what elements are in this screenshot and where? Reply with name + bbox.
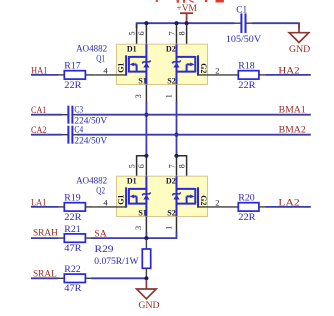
ground GND (bottom) bbox=[137, 280, 160, 312]
svg-text:D2: D2 bbox=[166, 177, 176, 186]
wire R21 to SA node bbox=[91, 237, 146, 239]
svg-text:5: 5 bbox=[127, 164, 136, 168]
svg-text:SA: SA bbox=[94, 229, 107, 239]
svg-text:HA1: HA1 bbox=[31, 65, 48, 75]
svg-text:S2: S2 bbox=[167, 209, 175, 218]
svg-text:S1: S1 bbox=[138, 77, 146, 86]
svg-text:7: 7 bbox=[167, 31, 176, 35]
svg-text:2: 2 bbox=[215, 65, 219, 75]
pin numbers 5 6 7 8 (Q2) bbox=[127, 164, 186, 168]
svg-text:CA2: CA2 bbox=[31, 125, 47, 135]
svg-text:R18: R18 bbox=[238, 61, 255, 71]
svg-text:G2: G2 bbox=[199, 195, 208, 205]
svg-text:6: 6 bbox=[137, 31, 146, 35]
wire pin7 column Q1 top bbox=[176, 23, 178, 44]
svg-text:D1: D1 bbox=[127, 177, 137, 186]
wire S1(Q1) down to BMA1 and jog row bbox=[145, 85, 147, 104]
resistor R19 22R bbox=[58, 193, 92, 222]
svg-text:D2: D2 bbox=[166, 45, 176, 54]
svg-text:47R: 47R bbox=[64, 243, 82, 253]
resistor R29 0.075R/1W (vertical) bbox=[142, 238, 150, 278]
part body Q1 AO4882 bbox=[117, 44, 208, 84]
wire HA1 to R17 bbox=[31, 74, 58, 76]
svg-text:1: 1 bbox=[164, 226, 173, 230]
svg-text:R22: R22 bbox=[64, 264, 81, 274]
svg-text:LA2: LA2 bbox=[278, 197, 300, 207]
junction dot BMA1 column bbox=[144, 113, 148, 117]
capacitor C4 bbox=[68, 126, 72, 144]
svg-text:22R: 22R bbox=[238, 212, 256, 222]
wire Q2 G2 to R20 bbox=[198, 206, 238, 208]
svg-text:22R: 22R bbox=[64, 212, 82, 222]
junction dot SA node bbox=[144, 236, 148, 240]
ground GND (top right) bbox=[289, 23, 310, 55]
wire R19 to Q2 gate G1 bbox=[91, 206, 126, 208]
svg-text:5: 5 bbox=[127, 31, 136, 35]
pin numbers 5 6 7 8 (Q1) bbox=[127, 31, 186, 35]
wire Q1 G2 to R18 bbox=[198, 74, 238, 76]
svg-text:AO4882: AO4882 bbox=[76, 175, 107, 185]
wire jog to Q2 pin8 bbox=[177, 156, 187, 176]
wire R17 to Q1 gate G1 bbox=[91, 74, 126, 76]
svg-text:22R: 22R bbox=[64, 80, 82, 90]
svg-text:R20: R20 bbox=[238, 193, 255, 203]
resistor R21 47R bbox=[58, 224, 92, 253]
resistor R17 22R bbox=[58, 61, 92, 90]
wire jog to Q2 pin5 bbox=[137, 156, 147, 176]
wire LA1 to R19 bbox=[31, 206, 58, 208]
svg-text:AO4882: AO4882 bbox=[76, 43, 107, 53]
wire +VM rail bbox=[137, 23, 235, 28]
svg-text:SRAH: SRAH bbox=[33, 227, 58, 237]
svg-text:0.075R/1W: 0.075R/1W bbox=[94, 256, 139, 266]
svg-text:G2: G2 bbox=[199, 63, 208, 73]
junction dot BMA2 column bbox=[174, 133, 178, 137]
wire S2(Q1) down to BMA2 and jog row bbox=[176, 85, 178, 104]
capacitor C1 bbox=[235, 13, 253, 33]
svg-text:S2: S2 bbox=[167, 77, 175, 86]
wire Q2 pin7 drop bbox=[176, 156, 178, 176]
svg-text:R29: R29 bbox=[95, 244, 114, 254]
svg-text:4: 4 bbox=[103, 197, 108, 207]
wire CA1 to C3 bbox=[31, 114, 68, 116]
svg-text:BMA2: BMA2 bbox=[279, 125, 307, 135]
svg-text:6: 6 bbox=[137, 164, 146, 168]
svg-text:R19: R19 bbox=[64, 193, 81, 203]
svg-text:Q1: Q1 bbox=[96, 54, 105, 64]
svg-text:R17: R17 bbox=[64, 61, 81, 71]
svg-text:GND: GND bbox=[138, 300, 159, 311]
wire pin5 drop Q1 bbox=[136, 24, 138, 44]
transistor Q2-B (right N-FET) bbox=[172, 176, 198, 216]
wire R18 to HA2 bbox=[259, 74, 311, 76]
svg-text:22R: 22R bbox=[238, 80, 256, 90]
junction dots jog row bbox=[144, 154, 178, 158]
svg-text:4: 4 bbox=[103, 65, 108, 75]
svg-text:C3: C3 bbox=[74, 105, 83, 115]
svg-text:1: 1 bbox=[164, 94, 173, 98]
svg-text:8: 8 bbox=[177, 164, 186, 168]
part body Q2 AO4882 bbox=[117, 176, 208, 216]
transistor Q1-A (left N-FET) bbox=[126, 44, 151, 84]
clipped title text fragments (top edge) bbox=[156, 0, 224, 3]
svg-text:CA1: CA1 bbox=[31, 105, 47, 115]
wire pin8 column Q1 top bbox=[186, 23, 188, 44]
transistor Q2-A (left N-FET) bbox=[126, 176, 151, 216]
transistor Q1-B (right N-FET) bbox=[172, 44, 198, 84]
junction dot GND node bbox=[144, 276, 148, 280]
wire R22 to GND node bbox=[91, 277, 146, 279]
svg-text:3: 3 bbox=[134, 94, 143, 98]
capacitor C3 bbox=[68, 106, 72, 124]
junction dots on +VM rail bbox=[144, 21, 188, 25]
wire R20 to LA2 bbox=[259, 206, 311, 208]
svg-text:HA2: HA2 bbox=[278, 65, 300, 75]
svg-text:D1: D1 bbox=[127, 45, 137, 54]
wire C3 to BMA1 bbox=[73, 114, 310, 116]
svg-text:R21: R21 bbox=[64, 224, 81, 234]
svg-text:GND: GND bbox=[289, 44, 310, 55]
svg-text:105/50V: 105/50V bbox=[226, 34, 262, 44]
svg-text:224/50V: 224/50V bbox=[74, 135, 107, 145]
wire Q2 pin3 to SA node bbox=[145, 217, 147, 239]
wire C4 to BMA2 bbox=[73, 134, 310, 136]
resistor R22 47R bbox=[58, 264, 92, 293]
svg-text:47R: 47R bbox=[64, 283, 82, 293]
svg-text:+VM: +VM bbox=[176, 4, 197, 14]
wire CA2 to C4 bbox=[31, 134, 68, 136]
svg-text:8: 8 bbox=[177, 31, 186, 35]
svg-text:C1: C1 bbox=[236, 4, 247, 14]
svg-text:Q2: Q2 bbox=[96, 186, 105, 196]
svg-text:7: 7 bbox=[167, 164, 176, 168]
svg-text:BMA1: BMA1 bbox=[279, 105, 307, 115]
resistor R18 22R bbox=[238, 61, 259, 90]
wire SRAL to R22 bbox=[31, 277, 58, 279]
power symbol +VM bbox=[176, 4, 197, 23]
svg-text:SRAL: SRAL bbox=[33, 269, 57, 279]
wire C1 right to GND corner bbox=[252, 23, 299, 28]
wire pin6 column Q1 top bbox=[145, 23, 147, 44]
svg-text:C4: C4 bbox=[74, 125, 83, 135]
wire SRAH to R21 bbox=[31, 237, 58, 239]
svg-text:2: 2 bbox=[215, 197, 219, 207]
resistor R20 22R bbox=[238, 193, 259, 222]
svg-text:G1: G1 bbox=[116, 195, 125, 205]
svg-text:3: 3 bbox=[134, 226, 143, 230]
svg-text:G1: G1 bbox=[116, 63, 125, 73]
wire Q2 pin6 drop bbox=[145, 156, 147, 176]
wire Q2 pin1 to SA node bbox=[146, 217, 176, 239]
svg-text:S1: S1 bbox=[138, 209, 146, 218]
svg-text:LA1: LA1 bbox=[31, 197, 47, 207]
